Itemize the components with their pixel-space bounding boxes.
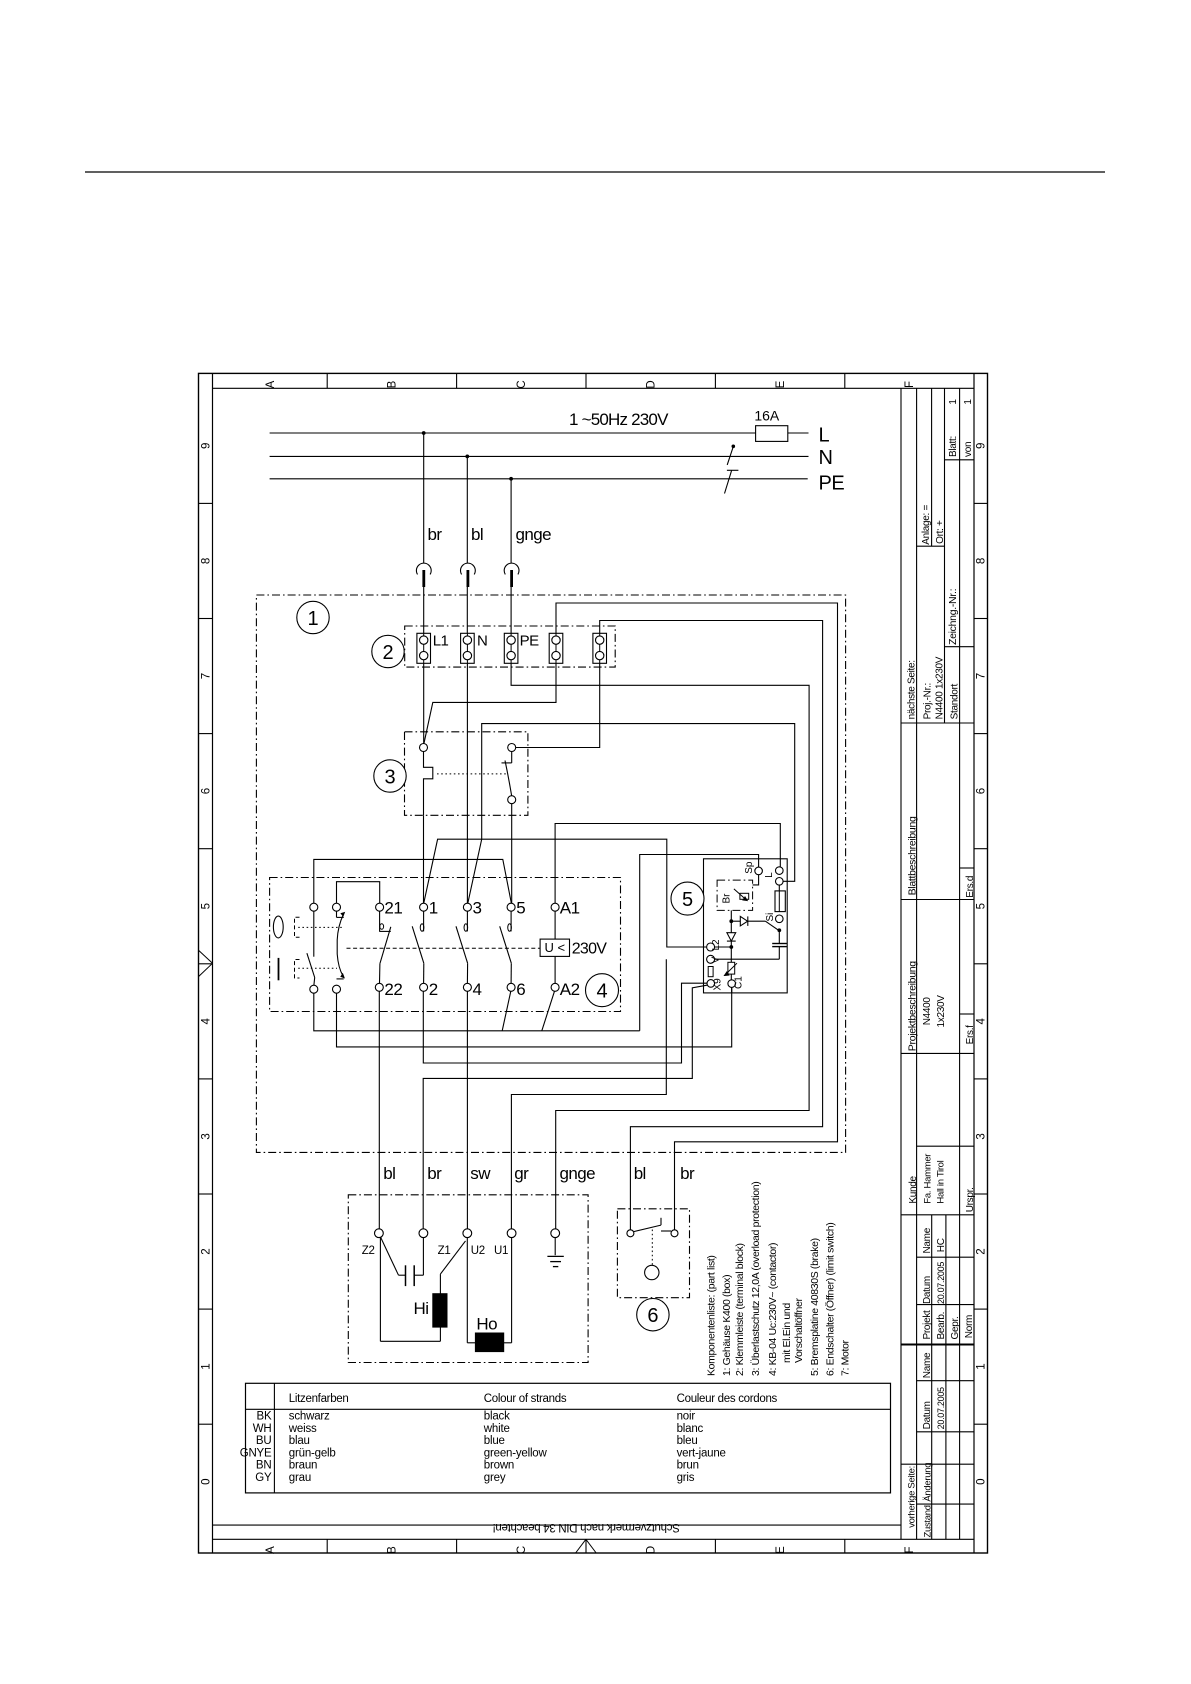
svg-text:2: 2 xyxy=(382,642,393,664)
overload right pole xyxy=(508,744,516,752)
svg-text:GNYE: GNYE xyxy=(240,1447,272,1459)
svg-text:Vorschaltöffner: Vorschaltöffner xyxy=(793,1298,805,1363)
svg-text:A2: A2 xyxy=(560,980,580,999)
svg-text:L: L xyxy=(764,872,775,878)
svg-text:21: 21 xyxy=(384,899,402,918)
node PE junction xyxy=(509,477,513,481)
svg-text:D: D xyxy=(645,1546,657,1554)
svg-text:N4400: N4400 xyxy=(922,997,933,1026)
wire br drop from L xyxy=(423,433,425,563)
svg-text:brun: brun xyxy=(677,1460,699,1472)
wire X9 to motor Z1 (row 1078) xyxy=(423,985,707,1229)
svg-text:Hall in Tirol: Hall in Tirol xyxy=(936,1160,947,1203)
svg-text:HC: HC xyxy=(936,1238,947,1252)
colour table frame xyxy=(246,1383,891,1493)
contactor coil A1-A2 with undervoltage release xyxy=(551,903,559,911)
svg-text:br: br xyxy=(428,525,443,544)
svg-text:grey: grey xyxy=(484,1472,506,1484)
svg-text:U1: U1 xyxy=(494,1245,508,1257)
svg-text:mit El.Ein und: mit El.Ein und xyxy=(781,1303,793,1363)
callout circle 3 xyxy=(374,760,406,792)
motor terminal earth xyxy=(551,1229,560,1238)
contactor actuator ellipse xyxy=(273,916,283,938)
svg-text:5: 5 xyxy=(516,899,525,918)
terminal X1:1 xyxy=(417,633,431,663)
svg-text:Datum: Datum xyxy=(922,1401,933,1429)
schutzvermerk strip line xyxy=(213,1524,902,1526)
svg-text:Z2: Z2 xyxy=(362,1245,375,1257)
contactor box 4 (KB-04) xyxy=(270,878,621,1012)
wire Sp into Br box xyxy=(753,875,759,885)
svg-text:blanc: blanc xyxy=(677,1423,704,1435)
svg-text:8: 8 xyxy=(976,558,988,564)
svg-text:C1: C1 xyxy=(734,976,745,989)
svg-text:D: D xyxy=(645,380,657,388)
svg-text:GY: GY xyxy=(255,1472,272,1484)
svg-text:2: 2 xyxy=(976,1248,988,1254)
callout circle 4 xyxy=(586,974,619,1007)
wire contact 4 to motor U2 xyxy=(466,991,468,1229)
svg-text:3: 3 xyxy=(976,1133,988,1139)
svg-text:brown: brown xyxy=(484,1460,514,1472)
wire Br box to node A xyxy=(730,910,732,921)
svg-text:1: 1 xyxy=(963,399,974,405)
wire A1 to brake board L xyxy=(555,824,780,904)
svg-text:Ers.f: Ers.f xyxy=(965,1025,976,1045)
wire brake V to motor U1 (row 1094) xyxy=(511,959,666,1229)
svg-text:BN: BN xyxy=(256,1460,272,1472)
svg-text:schwarz: schwarz xyxy=(289,1411,330,1423)
callout circle 6 xyxy=(637,1299,669,1331)
brake Br coil box (dash-dot) xyxy=(717,880,753,910)
motor terminal U1 xyxy=(507,1229,516,1238)
svg-text:20.07.2005: 20.07.2005 xyxy=(936,1387,946,1429)
switch blade to Si node xyxy=(765,921,778,930)
svg-text:Name: Name xyxy=(922,1227,933,1253)
terminal Sp xyxy=(755,867,763,875)
svg-text:Projekt: Projekt xyxy=(922,1310,933,1340)
fuse 16A xyxy=(756,426,788,442)
svg-text:Gepr.: Gepr. xyxy=(950,1317,961,1340)
svg-text:BU: BU xyxy=(256,1435,272,1447)
svg-text:von: von xyxy=(963,442,974,457)
svg-text:vert-jaune: vert-jaune xyxy=(677,1447,726,1459)
frame letter cell ticks top xyxy=(326,373,328,388)
cable strain relief gnge xyxy=(504,563,519,574)
svg-text:7: 7 xyxy=(201,673,213,679)
svg-text:4: KB-04 Uc:230V~ (contactor): 4: KB-04 Uc:230V~ (contactor) xyxy=(767,1243,779,1376)
motor earth symbol xyxy=(554,1238,556,1256)
terminal X1:4 xyxy=(549,633,563,663)
bus line PE xyxy=(270,478,808,480)
svg-text:Couleur des cordons: Couleur des cordons xyxy=(677,1393,778,1405)
svg-text:2: 2 xyxy=(429,980,438,999)
svg-text:1: 1 xyxy=(948,399,959,405)
limit switch actuator dotted xyxy=(651,1230,653,1266)
actuator link dotted upper xyxy=(298,926,343,928)
terminal L2 xyxy=(707,943,715,951)
wire T5 top from right rail xyxy=(600,621,823,1231)
svg-text:B: B xyxy=(387,1546,399,1554)
svg-text:Si: Si xyxy=(765,913,776,922)
svg-text:4: 4 xyxy=(473,980,482,999)
cable strain relief br xyxy=(416,563,431,574)
svg-text:bl: bl xyxy=(471,525,483,544)
svg-text:white: white xyxy=(483,1423,510,1435)
terminal strip box 2 (Klemmleiste) xyxy=(405,626,616,667)
svg-text:2: 2 xyxy=(201,1248,213,1254)
contactor main contact 5-6 xyxy=(507,903,515,911)
svg-text:Änderung: Änderung xyxy=(922,1463,933,1502)
wire gnge to terminal xyxy=(510,587,512,633)
fuse Si xyxy=(778,885,780,891)
callout circle 5 xyxy=(671,882,704,915)
svg-text:7: Motor: 7: Motor xyxy=(840,1339,852,1376)
thyristor xyxy=(731,920,740,922)
wire contact 22 to motor Z2 xyxy=(378,991,380,1229)
wire T1 to overload xyxy=(423,663,425,743)
svg-text:A1: A1 xyxy=(560,899,580,918)
wire gnge drop from PE xyxy=(510,479,512,563)
wire contact 6 diagonal xyxy=(502,991,511,1031)
svg-text:1 ~50Hz 230V: 1 ~50Hz 230V xyxy=(569,410,669,429)
svg-text:Br: Br xyxy=(722,893,733,904)
svg-text:grün-gelb: grün-gelb xyxy=(289,1447,336,1459)
svg-text:9: 9 xyxy=(201,443,213,449)
svg-text:Komponentenliste: (part list): Komponentenliste: (part list) xyxy=(705,1255,717,1376)
title block horizontals xyxy=(945,459,975,461)
wire T5 bottom to overload right pole xyxy=(516,663,600,747)
title block verticals xyxy=(900,388,902,1539)
link V to X9 xyxy=(708,967,713,977)
svg-text:Name: Name xyxy=(922,1352,933,1378)
svg-text:1x230V: 1x230V xyxy=(936,995,947,1028)
svg-text:Bearb.: Bearb. xyxy=(936,1312,947,1340)
svg-text:Schutzvermerk nach DIN 34 beac: Schutzvermerk nach DIN 34 beachten! xyxy=(493,1521,680,1533)
svg-text:1: 1 xyxy=(307,608,318,630)
node N junction xyxy=(465,455,469,459)
wire A2 diagonal xyxy=(542,991,555,1031)
svg-text:Ort: +: Ort: + xyxy=(935,520,946,544)
overload trip link dotted xyxy=(437,773,508,775)
callout circle 1 xyxy=(297,601,329,633)
drawing frame outer border xyxy=(199,373,988,1553)
node L junction xyxy=(422,431,426,435)
svg-text:Z1: Z1 xyxy=(438,1245,451,1257)
wire overload left pole to contact 1 xyxy=(423,815,425,903)
actuator bracket upper (dashed) xyxy=(295,917,300,937)
svg-text:vorherige Seite:: vorherige Seite: xyxy=(906,1466,917,1528)
svg-text:3: 3 xyxy=(201,1133,213,1139)
svg-text:8: 8 xyxy=(201,558,213,564)
wire T4 top from right rail xyxy=(556,603,838,1230)
svg-text:A: A xyxy=(265,380,277,388)
svg-text:WH: WH xyxy=(253,1423,272,1435)
latch contact column A xyxy=(310,903,318,911)
contactor main contact 3-4 xyxy=(463,903,471,911)
svg-text:1: 1 xyxy=(201,1363,213,1369)
svg-text:6: Endschalter (Öffner) (limit: 6: Endschalter (Öffner) (limit switch) xyxy=(825,1223,837,1376)
svg-text:Blatt:: Blatt: xyxy=(948,436,959,457)
svg-text:5: 5 xyxy=(976,903,988,909)
svg-text:6: 6 xyxy=(976,788,988,794)
svg-text:L2: L2 xyxy=(711,939,722,951)
frame ruler cell ticks left/right xyxy=(199,502,213,504)
wire contact 1 node to brake L2 (horizontal 839) xyxy=(424,839,707,947)
motor terminal U2 xyxy=(463,1229,472,1238)
svg-text:V: V xyxy=(711,956,722,963)
svg-text:C: C xyxy=(516,1546,528,1554)
svg-text:PE: PE xyxy=(520,633,540,650)
wire L2 to node xyxy=(714,946,731,948)
fold mark bottom edge xyxy=(576,1539,586,1553)
svg-text:0: 0 xyxy=(201,1478,213,1484)
svg-text:grau: grau xyxy=(289,1472,311,1484)
motor capacitor xyxy=(381,1237,399,1275)
svg-text:6: 6 xyxy=(516,980,525,999)
svg-text:N: N xyxy=(477,633,487,650)
svg-text:X9: X9 xyxy=(713,978,724,991)
svg-text:F: F xyxy=(904,381,916,388)
svg-text:B: B xyxy=(387,380,399,388)
svg-text:noir: noir xyxy=(677,1411,696,1423)
svg-text:Standort: Standort xyxy=(949,683,960,719)
motor box (dash-dot) xyxy=(348,1195,588,1363)
wire T3 (PE) right and down xyxy=(511,663,809,1229)
frame letter cell ticks bottom xyxy=(326,1539,328,1553)
brake winding Hi xyxy=(440,1241,465,1274)
limit switch contact xyxy=(627,1230,634,1237)
svg-text:Zustand: Zustand xyxy=(922,1505,933,1537)
svg-text:black: black xyxy=(484,1411,510,1423)
motor terminal Z2 xyxy=(375,1229,384,1238)
svg-text:Hi: Hi xyxy=(414,1299,429,1318)
svg-text:Ers.d: Ers.d xyxy=(965,876,976,898)
wire contact 2 to X9 (row 1063) xyxy=(423,983,707,1063)
svg-text:PE: PE xyxy=(819,472,845,494)
node Si dot xyxy=(777,928,781,932)
svg-text:br: br xyxy=(680,1164,695,1183)
svg-text:F: F xyxy=(904,1546,916,1553)
svg-text:Urspr.: Urspr. xyxy=(965,1187,976,1212)
svg-text:weiss: weiss xyxy=(288,1423,317,1435)
terminal X1:2 xyxy=(461,633,475,663)
wire Sp riser xyxy=(640,855,759,1031)
limit switch actuator circle xyxy=(645,1265,659,1279)
svg-text:Colour of strands: Colour of strands xyxy=(484,1393,567,1405)
svg-text:22: 22 xyxy=(384,980,402,999)
svg-text:br: br xyxy=(427,1164,442,1183)
svg-text:0: 0 xyxy=(976,1478,988,1484)
overload protection box 3 (Ueberlastschutz) xyxy=(405,732,528,816)
svg-text:Litzenfarben: Litzenfarben xyxy=(289,1393,349,1405)
svg-text:1: 1 xyxy=(976,1363,988,1369)
svg-text:9: 9 xyxy=(976,443,988,449)
contactor main contact 1-2 xyxy=(420,903,428,911)
svg-text:230V: 230V xyxy=(572,941,608,958)
callout circle 2 xyxy=(372,635,404,667)
svg-text:U2: U2 xyxy=(471,1245,485,1257)
svg-text:3: Überlastschutz 12,0A (overl: 3: Überlastschutz 12,0A (overload protec… xyxy=(750,1182,762,1376)
cable strain relief bl xyxy=(461,563,476,574)
node L2 dot xyxy=(729,945,733,949)
svg-text:bl: bl xyxy=(383,1164,395,1183)
page top rule xyxy=(85,171,1105,173)
actuator bracket lower (dashed) xyxy=(295,960,300,979)
svg-text:blue: blue xyxy=(484,1435,505,1447)
enclosure box 1 (Gehaeuse K400) xyxy=(256,595,845,1152)
overload left pole xyxy=(420,744,428,752)
fold mark left edge xyxy=(199,950,213,963)
svg-text:6: 6 xyxy=(201,788,213,794)
terminal X1:5 xyxy=(593,633,607,663)
svg-text:bleu: bleu xyxy=(677,1435,698,1447)
terminal V xyxy=(707,955,715,963)
terminal L lower xyxy=(776,878,784,886)
svg-text:L1: L1 xyxy=(433,633,449,650)
wire latch A to contact 5 (horizontal 859) xyxy=(314,859,512,903)
wire bl to terminal xyxy=(466,587,468,633)
svg-text:E: E xyxy=(775,380,787,388)
svg-text:Datum: Datum xyxy=(922,1276,933,1304)
svg-text:blau: blau xyxy=(289,1435,310,1447)
svg-text:Zeichng.-Nr.:: Zeichng.-Nr.: xyxy=(947,589,959,645)
main winding Ho xyxy=(466,1238,468,1343)
svg-text:20.07.2005: 20.07.2005 xyxy=(936,1262,946,1304)
svg-text:C: C xyxy=(516,380,528,388)
freewheel diode vertical xyxy=(730,921,732,933)
terminal L upper xyxy=(776,867,784,875)
wire latch A bottom / contact 6 / A2 / Sp common (row 1030) xyxy=(314,993,640,1031)
svg-text:7: 7 xyxy=(976,673,988,679)
frame letter-row lines xyxy=(213,387,975,389)
svg-text:5: 5 xyxy=(682,889,693,911)
svg-text:Projektbeschreibung: Projektbeschreibung xyxy=(906,961,918,1051)
brake solenoid symbol xyxy=(740,893,749,899)
svg-text:2: Klemmleiste (terminal block: 2: Klemmleiste (terminal block) xyxy=(734,1243,746,1376)
actuator link dotted lower xyxy=(298,967,337,969)
wire N path to brake L (horizontal 723) xyxy=(468,724,795,904)
limit switch box 6 (Endschalter) xyxy=(617,1209,689,1298)
latch contact column B (early-break) xyxy=(333,903,341,911)
svg-text:1: 1 xyxy=(429,899,438,918)
potentiometer xyxy=(728,962,735,974)
terminal X1:3 xyxy=(504,633,518,663)
svg-text:Fa. Hammer: Fa. Hammer xyxy=(922,1154,933,1204)
svg-text:N: N xyxy=(819,447,833,469)
svg-text:Norm: Norm xyxy=(964,1315,975,1338)
svg-text:green-yellow: green-yellow xyxy=(484,1447,548,1459)
wire bl drop from N xyxy=(466,456,468,563)
svg-text:Blattbeschreibung: Blattbeschreibung xyxy=(906,816,918,895)
wire T2 (N) down to contact 3 xyxy=(466,663,468,903)
terminal X9 xyxy=(707,980,715,988)
svg-text:BK: BK xyxy=(257,1411,272,1423)
contactor actuator bar xyxy=(278,958,280,980)
wire overload right pole to contact 5 xyxy=(511,804,513,904)
svg-text:gnge: gnge xyxy=(516,525,552,544)
svg-text:16A: 16A xyxy=(754,408,780,424)
wire latch B bottom to C1 (row 1047) xyxy=(337,988,732,1047)
wire capacitor to V terminal xyxy=(714,958,779,960)
svg-text:3: 3 xyxy=(384,767,395,789)
svg-text:5: Bremsplatine 40830S (brake): 5: Bremsplatine 40830S (brake) xyxy=(809,1238,821,1376)
bus line N xyxy=(270,455,809,457)
terminal C1 xyxy=(728,980,736,988)
svg-text:Anlage: =: Anlage: = xyxy=(921,505,932,545)
wire C1 through board edge xyxy=(731,987,733,993)
brake capacitor xyxy=(778,930,780,943)
brake board box 5 (Bremsplatine 40830S) xyxy=(704,859,788,993)
svg-text:6: 6 xyxy=(647,1305,658,1327)
svg-text:5: 5 xyxy=(201,903,213,909)
contactor NC contact 21-22 xyxy=(376,903,384,911)
svg-text:bl: bl xyxy=(634,1164,646,1183)
svg-text:A: A xyxy=(265,1546,277,1554)
svg-text:gris: gris xyxy=(677,1472,695,1484)
svg-text:L: L xyxy=(819,425,830,447)
svg-text:sw: sw xyxy=(470,1164,491,1183)
svg-text:3: 3 xyxy=(473,899,482,918)
svg-text:E: E xyxy=(775,1546,787,1554)
jumper latch B to contact 21 xyxy=(337,882,380,904)
svg-text:U <: U < xyxy=(545,940,566,955)
svg-text:braun: braun xyxy=(289,1460,317,1472)
wire br to terminal xyxy=(423,587,425,633)
node A dot xyxy=(729,919,733,923)
svg-text:Proj.-Nr.:: Proj.-Nr.: xyxy=(923,683,934,719)
bus line L xyxy=(270,432,756,434)
PE conductor slash xyxy=(725,471,732,494)
motor terminal Z1 xyxy=(419,1229,428,1238)
svg-text:nächste Seite:: nächste Seite: xyxy=(906,660,917,719)
frame inner verticals (ruler columns) xyxy=(212,373,214,1553)
svg-text:4: 4 xyxy=(976,1018,988,1025)
svg-text:N4400 1x230V: N4400 1x230V xyxy=(935,656,946,719)
contactor mechanism link dashed to coil xyxy=(347,947,541,949)
svg-text:Kunde: Kunde xyxy=(908,1175,919,1203)
wire T4 bottom to overload via diagonal xyxy=(424,663,556,743)
neutral conductor slash xyxy=(727,447,733,465)
svg-text:4: 4 xyxy=(201,1018,213,1025)
svg-text:gnge: gnge xyxy=(560,1164,596,1183)
svg-text:Ho: Ho xyxy=(476,1315,497,1334)
svg-text:gr: gr xyxy=(514,1164,529,1183)
svg-text:1: Gehäuse K400 (box): 1: Gehäuse K400 (box) xyxy=(721,1275,733,1376)
svg-text:4: 4 xyxy=(596,981,607,1003)
svg-text:Sp: Sp xyxy=(744,861,755,874)
